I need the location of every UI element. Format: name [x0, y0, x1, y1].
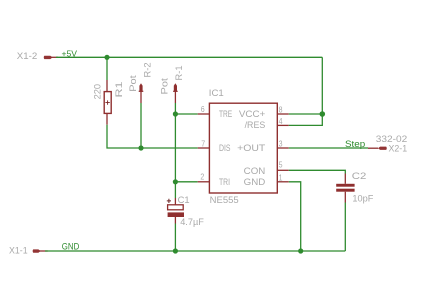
- junction ground rail / pin 1: [298, 248, 303, 253]
- svg-text:Pot: Pot: [160, 77, 170, 94]
- svg-text:CON: CON: [244, 165, 266, 176]
- svg-text:C2: C2: [352, 170, 367, 181]
- wire C2 to ground rail: [344, 203, 346, 252]
- wire C1 to ground rail: [174, 224, 176, 252]
- pin 7 stub: [198, 147, 209, 149]
- svg-text:X1-1: X1-1: [9, 246, 28, 256]
- wire pin 1 to ground rail: [289, 182, 301, 251]
- wire pin 8 to rail: [289, 113, 323, 115]
- svg-text:GND: GND: [62, 242, 80, 252]
- svg-text:IC1: IC1: [209, 88, 224, 98]
- connector pin X2-1: [368, 147, 387, 150]
- pin R1 bottom stub: [106, 113, 108, 124]
- pin C1 top stub: [174, 198, 176, 205]
- svg-text:3: 3: [279, 138, 283, 148]
- svg-text:5: 5: [279, 160, 283, 170]
- svg-text:10pF: 10pF: [352, 194, 373, 204]
- connector pin Pot R-2: [139, 83, 144, 103]
- svg-text:X1-2: X1-2: [17, 51, 38, 61]
- pin 6 stub: [198, 113, 209, 115]
- svg-text:8: 8: [279, 104, 283, 114]
- wire to pin 2: [175, 181, 197, 183]
- pin 2 stub: [198, 181, 209, 183]
- resistor R1: [104, 92, 111, 114]
- svg-text:DIS: DIS: [219, 142, 231, 153]
- junction TRI node: [173, 179, 178, 184]
- svg-text:/RES: /RES: [245, 119, 266, 130]
- svg-text:GND: GND: [244, 176, 266, 187]
- svg-text:VCC+: VCC+: [239, 108, 266, 119]
- pin R1 top stub: [106, 80, 108, 92]
- svg-text:X2-1: X2-1: [389, 143, 408, 153]
- svg-text:Step: Step: [345, 139, 365, 149]
- svg-text:NE555: NE555: [210, 195, 239, 205]
- svg-text:TRE: TRE: [219, 108, 232, 119]
- svg-text:1: 1: [279, 172, 283, 182]
- pin 8 stub: [277, 113, 288, 115]
- svg-text:TRI: TRI: [219, 176, 230, 187]
- svg-text:+OUT: +OUT: [237, 142, 266, 153]
- wire pot R-2 drop: [140, 103, 142, 148]
- junction ground rail / C1: [173, 248, 178, 253]
- svg-text:4.7µF: 4.7µF: [180, 217, 204, 227]
- origin cross R1: [105, 100, 109, 104]
- wire R1 top: [106, 57, 108, 80]
- capacitor C1: [168, 205, 184, 217]
- junction top rail / R1: [104, 55, 109, 60]
- svg-text:220: 220: [92, 84, 102, 100]
- wire R1 to DIS: [107, 125, 198, 148]
- pin 1 stub: [277, 181, 288, 183]
- svg-text:2: 2: [200, 172, 204, 182]
- svg-text:R-1: R-1: [174, 65, 184, 80]
- junction TRE node: [173, 111, 178, 116]
- pin 3 stub: [277, 147, 288, 149]
- svg-text:4: 4: [279, 116, 283, 126]
- connector pin Pot R-1: [173, 83, 178, 103]
- wire pot R-1 drop: [174, 103, 176, 198]
- wire pin 4 to VCC node: [289, 114, 323, 125]
- wire OUT to X2: [289, 147, 368, 149]
- wire +5V top rail: [56, 56, 322, 58]
- connector pin X1-2: [44, 56, 58, 59]
- pin C2 bottom stub: [344, 192, 346, 203]
- pin C1 bottom stub: [174, 217, 176, 224]
- svg-text:R-2: R-2: [142, 62, 152, 77]
- ic NE555 body U1: [209, 103, 277, 193]
- svg-text:C1: C1: [178, 194, 190, 205]
- pin 4 stub: [277, 124, 288, 126]
- pin 5 stub: [277, 169, 288, 171]
- svg-text:6: 6: [201, 104, 205, 114]
- wire pin 5 to C2: [289, 170, 346, 173]
- polarity plus C1: [167, 199, 171, 203]
- svg-text:R1: R1: [114, 82, 124, 98]
- junction DIS wire / pot R-2: [138, 145, 143, 150]
- wire ground rail: [45, 250, 345, 252]
- svg-text:7: 7: [201, 138, 205, 148]
- capacitor C2: [336, 184, 354, 192]
- junction VCC node: [320, 111, 326, 117]
- svg-text:Pot: Pot: [128, 75, 138, 92]
- wire +5V right drop: [321, 57, 323, 114]
- connector pin X1-1: [33, 249, 48, 252]
- pin C2 top stub: [344, 174, 346, 184]
- wire to pin 6: [175, 113, 197, 115]
